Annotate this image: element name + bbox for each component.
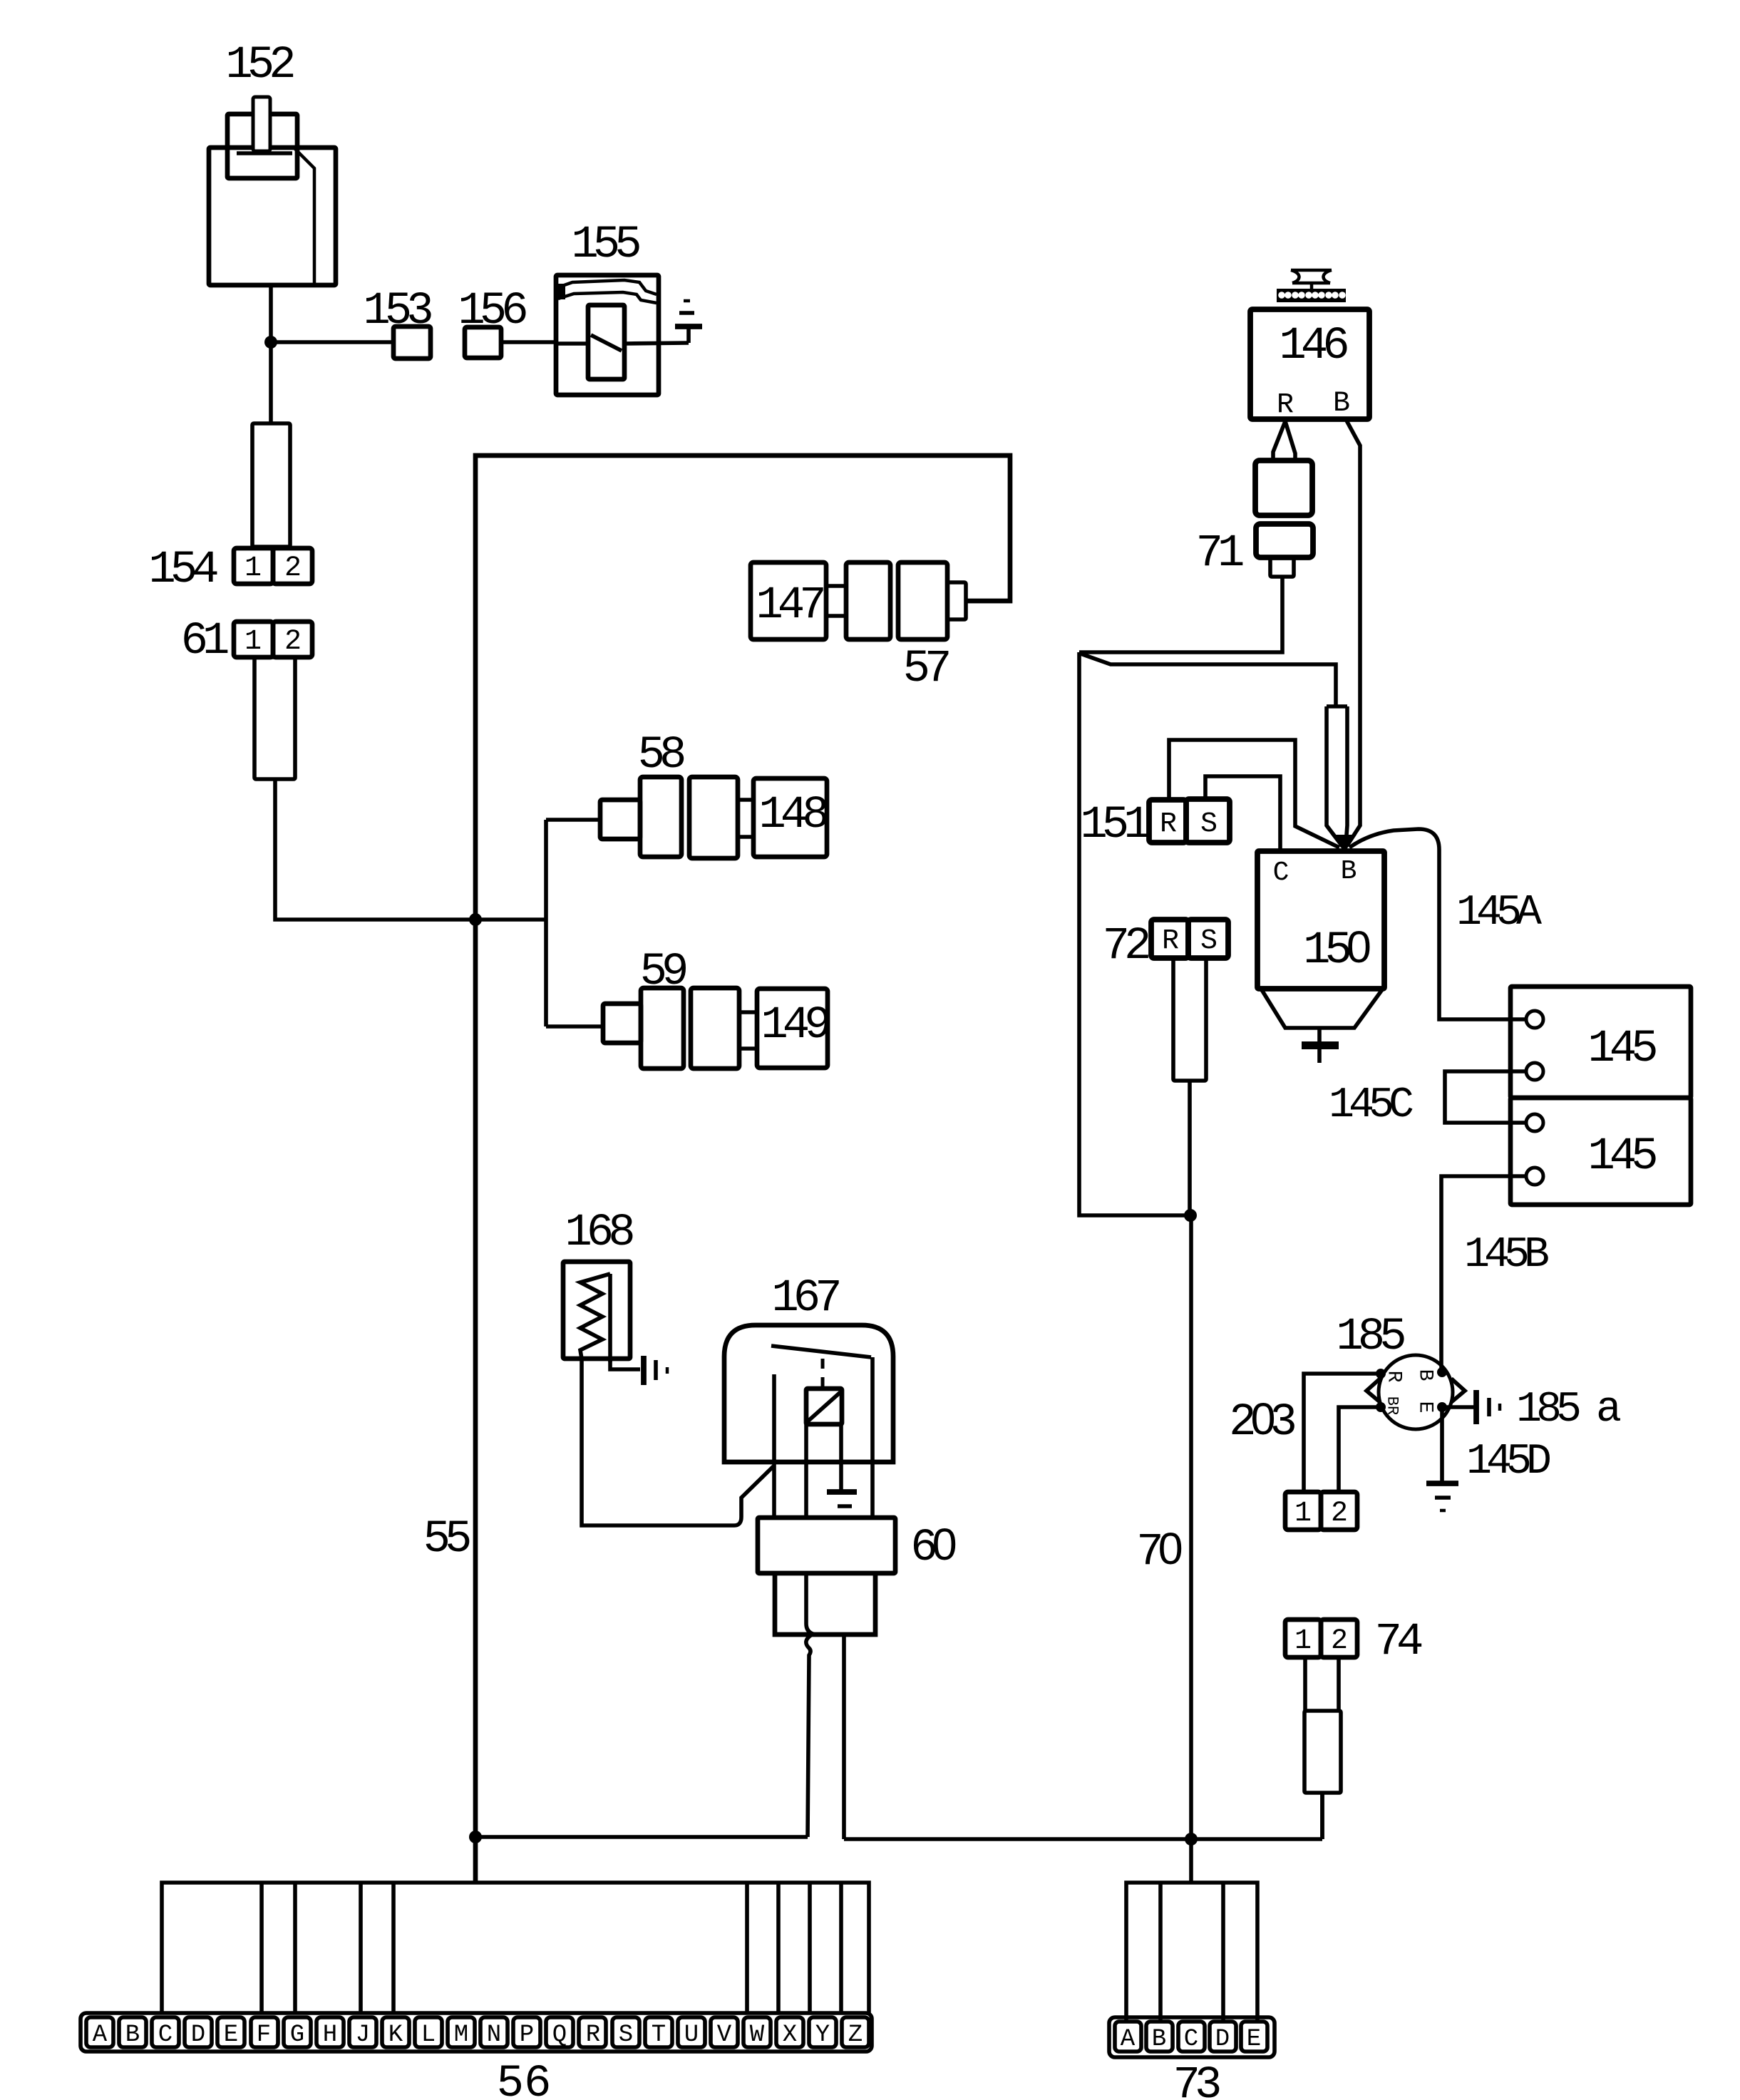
svg-text:150: 150 <box>1303 922 1370 977</box>
connector 56 pin C <box>152 2017 179 2047</box>
wire drop to pin X <box>776 1883 781 2014</box>
connector 56 pin N <box>480 2017 508 2047</box>
svg-text:S: S <box>619 2022 633 2049</box>
connector 57 half A <box>846 562 890 639</box>
connector 74 pin 2 <box>1321 1620 1357 1657</box>
svg-text:Y: Y <box>815 2022 830 2049</box>
wire drop to 73 pin B <box>1158 1883 1163 2020</box>
connector 153 <box>393 326 431 359</box>
resistor 168 heating element <box>580 1274 610 1359</box>
svg-text:57: 57 <box>903 644 949 695</box>
connector 60 body <box>758 1518 895 1573</box>
wire 72 to junction <box>1188 1081 1192 1216</box>
node B arrowhead on 150 <box>1332 835 1357 853</box>
connector 73 pin E <box>1241 2022 1267 2052</box>
wire sleeve below 72 <box>1173 958 1206 1081</box>
switch 167 coil box <box>806 1389 842 1424</box>
wire 151-S to C of 150 <box>1205 776 1280 850</box>
svg-text:149: 149 <box>761 1000 828 1051</box>
svg-text:145: 145 <box>1587 1131 1656 1183</box>
ground 185a sideways <box>1473 1390 1479 1424</box>
connector 58 half B <box>689 777 738 858</box>
connector 56 pin S <box>612 2017 639 2047</box>
terminal circle 3 of 145 <box>1526 1114 1543 1131</box>
relay 155 clip upper line <box>558 280 657 294</box>
unit 150 funnel <box>1261 989 1383 1028</box>
wire B of 146 down <box>1347 421 1360 845</box>
wire 60 right lead <box>842 1635 846 1839</box>
svg-text:145A: 145A <box>1456 889 1542 937</box>
svg-text:145: 145 <box>1587 1024 1656 1075</box>
unit 150 body <box>1257 851 1384 989</box>
svg-text:Q: Q <box>552 2022 567 2049</box>
svg-text:N: N <box>487 2022 501 2049</box>
ground after 155 <box>675 324 702 329</box>
switch 167 coil lead left <box>804 1424 808 1518</box>
svg-text:74: 74 <box>1375 1617 1422 1668</box>
svg-text:P: P <box>520 2022 534 2049</box>
svg-text:167: 167 <box>771 1273 839 1324</box>
svg-text:152: 152 <box>225 40 293 91</box>
connector 59 half A <box>641 988 684 1069</box>
svg-text:72: 72 <box>1103 921 1148 972</box>
wire 185-BR to 203 pin2 <box>1339 1407 1381 1492</box>
connector 59 half B <box>691 988 739 1069</box>
svg-text:58: 58 <box>638 730 684 781</box>
connector 57 stub <box>947 582 966 619</box>
svg-text:B: B <box>1414 1369 1436 1381</box>
wire drop to pin G <box>293 1883 297 2014</box>
svg-text:60: 60 <box>910 1520 955 1574</box>
wire links 147 <box>826 586 846 616</box>
node junction 152/153 <box>264 336 277 349</box>
node junction 70 bottom <box>1185 1833 1198 1846</box>
svg-text:L: L <box>421 2022 436 2049</box>
wire drop to pin J <box>359 1883 363 2014</box>
terminal circle 2 of 145 <box>1526 1063 1543 1080</box>
svg-text:71: 71 <box>1196 528 1243 580</box>
terminal E of 185 <box>1437 1402 1447 1412</box>
svg-text:K: K <box>388 2022 403 2049</box>
wire 155 to ground <box>686 326 691 343</box>
connector 56 pin E <box>217 2017 244 2047</box>
ignition coil 152 folded corner <box>295 149 314 284</box>
svg-text:1: 1 <box>244 626 262 658</box>
relay 155 coil diagonal <box>591 335 622 351</box>
switch 167 right lead <box>870 1357 875 1518</box>
svg-text:A: A <box>93 2022 108 2049</box>
svg-text:BR: BR <box>1384 1396 1401 1415</box>
connector block 56 outline <box>81 2013 872 2052</box>
svg-text:56: 56 <box>497 2059 552 2100</box>
svg-text:1: 1 <box>244 552 262 585</box>
svg-text:73: 73 <box>1173 2060 1220 2100</box>
connector 56 pin B <box>119 2017 146 2047</box>
distributor 146 rotor <box>1291 270 1332 283</box>
connector 72 pin R <box>1151 920 1188 958</box>
wire 71 down and left <box>1079 577 1282 652</box>
svg-text:145C: 145C <box>1329 1081 1413 1130</box>
connector 71 upper <box>1255 460 1312 515</box>
svg-text:C: C <box>158 2022 173 2049</box>
ignition coil 152 body <box>209 148 336 285</box>
connector 56 pin M <box>448 2017 475 2047</box>
device 185 left ear <box>1366 1379 1380 1402</box>
distributor 146 cap bar <box>1277 289 1346 302</box>
wire jog to sleeve feed <box>1081 654 1336 706</box>
connector 71 stub <box>1270 557 1294 577</box>
svg-text:203: 203 <box>1229 1394 1294 1448</box>
switch 167 housing <box>724 1325 893 1462</box>
wire branch vertical 58/59 <box>544 820 548 1026</box>
svg-text:Z: Z <box>848 2022 863 2049</box>
connector 56 pin W <box>743 2017 771 2047</box>
connector 57 half B <box>898 562 947 639</box>
wire 74 pin1 stub <box>1303 1657 1307 1711</box>
ignition coil 152 cap inner line <box>237 151 292 155</box>
relay 155 clip left blob <box>556 284 565 299</box>
svg-text:B: B <box>1341 856 1357 887</box>
svg-text:B: B <box>125 2022 140 2049</box>
node junction 70 top <box>1184 1209 1197 1222</box>
svg-text:155: 155 <box>571 220 639 271</box>
connector block 73 outline <box>1109 2017 1275 2057</box>
unit 150 ground tick <box>1317 1028 1322 1042</box>
wire 145B <box>1441 1176 1526 1372</box>
svg-text:185: 185 <box>1336 1312 1404 1363</box>
connector 56 pin A <box>86 2017 113 2047</box>
wire sleeve above 154 <box>252 423 290 547</box>
connector 147 box <box>751 562 826 639</box>
wire 145A from B node <box>1349 829 1526 1019</box>
device 185 right ear <box>1451 1379 1465 1402</box>
connector 60 lower plug <box>775 1573 875 1635</box>
switch 167 coil diagonal <box>808 1392 840 1421</box>
wire drop to pin K <box>391 1883 396 2014</box>
node junction on 55 line <box>469 913 482 926</box>
connector 151 pin R <box>1149 800 1186 843</box>
switch 167 dashed link <box>821 1359 825 1389</box>
terminal R of 185 <box>1376 1369 1386 1379</box>
connector 203 pin 1 <box>1285 1492 1321 1530</box>
svg-text:1: 1 <box>1294 1498 1312 1530</box>
connector 58 half A <box>640 777 681 857</box>
svg-text:R: R <box>1160 808 1177 840</box>
terminal circle 1 of 145 <box>1526 1011 1543 1028</box>
wire 151-R to B node <box>1169 740 1339 848</box>
connector 56 pin G <box>284 2017 311 2047</box>
svg-text:2: 2 <box>284 552 302 585</box>
connector 58 stub <box>600 800 640 839</box>
sensor 148 box <box>753 778 827 857</box>
spark gap arrow below R <box>1273 421 1295 460</box>
connector 56 pin T <box>645 2017 672 2047</box>
svg-text:145D: 145D <box>1466 1438 1550 1486</box>
svg-text:70: 70 <box>1136 1524 1181 1578</box>
wire fan bus 73 <box>1126 1883 1257 2020</box>
svg-text:E: E <box>1247 2026 1261 2053</box>
relay 155 clip lower line <box>558 292 657 303</box>
svg-text:2: 2 <box>284 626 302 658</box>
svg-text:1: 1 <box>1294 1625 1312 1657</box>
wire drop to pin W <box>745 1883 749 2014</box>
wire drop to pin F <box>259 1883 264 2014</box>
connector 56 pin R <box>579 2017 606 2047</box>
sensor 149 box <box>757 989 828 1068</box>
svg-text:61: 61 <box>181 616 228 667</box>
wire 185-E to ground 185a <box>1442 1405 1475 1409</box>
switch 167 coil lead to ground <box>839 1424 843 1491</box>
connector 71 lower <box>1256 524 1313 557</box>
wire 168 to ground <box>610 1359 640 1369</box>
wire coil to junction <box>269 285 273 342</box>
terminal BR of 185 <box>1376 1402 1386 1412</box>
svg-text:151: 151 <box>1080 800 1149 851</box>
svg-text:X: X <box>783 2022 797 2049</box>
svg-text:D: D <box>1215 2026 1230 2053</box>
svg-text:B: B <box>1152 2026 1166 2053</box>
svg-text:R: R <box>586 2022 600 2049</box>
wire 70 line <box>1189 1215 1193 1883</box>
connector 74 pin 1 <box>1285 1620 1321 1657</box>
wire 185-R to 203 pin1 <box>1304 1374 1381 1492</box>
connector 73 pin B <box>1146 2022 1173 2052</box>
wire 60 left lead <box>806 1635 812 1837</box>
ground inside 60 <box>827 1489 857 1495</box>
connector 61 pin 1 <box>234 622 273 657</box>
wire junction to 153 <box>271 340 393 344</box>
unit 150 ground bar <box>1302 1041 1339 1049</box>
ground 168 sideways <box>641 1356 647 1385</box>
terminal circle 4 of 145 <box>1526 1168 1543 1185</box>
device 185 circle <box>1379 1355 1453 1429</box>
switch 167 blade <box>771 1346 871 1357</box>
wire 168 to 60 <box>582 1359 773 1525</box>
svg-text:A: A <box>1121 2026 1136 2053</box>
connector 72 pin S <box>1188 920 1228 958</box>
connector 59 stub <box>603 1004 641 1043</box>
connector 154 pin 1 <box>234 548 273 584</box>
wire 74 sleeve to bus <box>1320 1793 1324 1839</box>
wire 185-E to chassis ground <box>1440 1407 1444 1482</box>
wire drop to 73 pin D <box>1221 1883 1225 2020</box>
svg-text:147: 147 <box>756 580 823 632</box>
ground 145D chassis <box>1426 1481 1458 1486</box>
svg-text:J: J <box>356 2022 370 2049</box>
connector 73 pin C <box>1178 2022 1205 2052</box>
connector 56 pin V <box>711 2017 738 2047</box>
svg-text:M: M <box>454 2022 468 2049</box>
relay 155 body <box>556 275 659 395</box>
wire sleeve below 74 <box>1304 1711 1341 1793</box>
svg-text:W: W <box>750 2022 765 2049</box>
svg-text:146: 146 <box>1279 321 1347 372</box>
svg-text:T: T <box>652 2022 666 2049</box>
wire main loop 55 / bus to 57 <box>475 455 1010 1883</box>
svg-text:B: B <box>1333 388 1350 420</box>
wire fan bus 56 <box>162 1883 869 2014</box>
connector 151 pin S <box>1186 799 1230 843</box>
svg-text:S: S <box>1200 925 1218 957</box>
connector 56 pin U <box>678 2017 705 2047</box>
connector 56 pin Q <box>546 2017 573 2047</box>
wire links 58-148 <box>738 800 753 837</box>
svg-text:D: D <box>191 2022 205 2049</box>
wire 61 to junction on 55 <box>275 779 546 920</box>
wire branch to 59 <box>546 1024 604 1029</box>
connector 56 pin F <box>251 2017 278 2047</box>
wire long vertical from 71 <box>1079 652 1190 1215</box>
wire bus left <box>475 1835 808 1839</box>
wire sleeve below 61 <box>254 657 295 779</box>
wire branch to 58 <box>546 818 602 822</box>
connector 73 pin D <box>1210 2022 1236 2052</box>
connector 156 <box>465 327 501 358</box>
svg-text:C: C <box>1273 858 1289 888</box>
wire junction down to sleeve <box>269 342 273 423</box>
wire drop to pin Z <box>839 1883 843 2014</box>
connector 73 pin A <box>1115 2022 1141 2052</box>
svg-text:H: H <box>323 2022 337 2049</box>
connector 56 pin Y <box>809 2017 836 2047</box>
relay 155 coil element <box>588 305 624 379</box>
wire drop to pin Y <box>808 1883 812 2014</box>
unit 145 upper box <box>1510 987 1691 1098</box>
connector 154 pin 2 <box>273 548 312 584</box>
unit 145 lower box <box>1510 1098 1691 1205</box>
svg-text:C: C <box>1184 2026 1198 2053</box>
svg-text:F: F <box>257 2022 271 2049</box>
resistor 168 inner lead <box>608 1274 612 1362</box>
svg-text:R: R <box>1383 1371 1405 1383</box>
wire 156 to 155 <box>501 340 557 344</box>
connector 56 pin D <box>185 2017 212 2047</box>
svg-text:R: R <box>1162 925 1179 957</box>
wire riser to 74 sleeve <box>1320 1794 1324 1839</box>
switch 167 left contact lead <box>772 1374 776 1518</box>
svg-text:U: U <box>684 2022 699 2049</box>
svg-text:185 a: 185 a <box>1516 1386 1620 1434</box>
svg-text:E: E <box>1414 1401 1436 1414</box>
svg-text:168: 168 <box>565 1208 633 1259</box>
connector 56 pin K <box>382 2017 409 2047</box>
svg-text:55: 55 <box>423 1514 470 1565</box>
svg-text:145B: 145B <box>1464 1231 1548 1280</box>
terminal B of 185 <box>1437 1367 1447 1377</box>
connector 56 pin P <box>513 2017 540 2047</box>
svg-text:G: G <box>290 2022 304 2049</box>
connector 56 pin J <box>349 2017 376 2047</box>
connector 56 pin H <box>316 2017 344 2047</box>
connector 56 pin X <box>776 2017 803 2047</box>
svg-text:148: 148 <box>758 790 827 841</box>
svg-text:V: V <box>717 2022 732 2049</box>
node junction 55 bottom <box>469 1831 482 1843</box>
connector 203 pin 2 <box>1321 1492 1357 1530</box>
svg-text:154: 154 <box>148 545 217 596</box>
wire through relay 155 <box>557 343 689 344</box>
connector 61 pin 2 <box>273 622 312 657</box>
ignition coil 152 terminal <box>253 97 270 151</box>
connector 56 pin L <box>415 2017 442 2047</box>
ignition coil 152 cap <box>227 114 297 178</box>
connector 60 plug divider <box>806 1573 815 1635</box>
svg-text:2: 2 <box>1331 1625 1348 1657</box>
wire bus right <box>844 1837 1322 1841</box>
svg-text:153: 153 <box>363 286 431 337</box>
connector 56 pin Z <box>842 2017 869 2047</box>
wire 74 pin2 stub <box>1337 1657 1341 1711</box>
wire 145C jumper <box>1445 1071 1526 1123</box>
svg-text:S: S <box>1200 808 1218 840</box>
wire links 59-149 <box>739 1012 757 1049</box>
svg-text:E: E <box>224 2022 238 2049</box>
resistor 168 box <box>563 1262 630 1359</box>
svg-text:R: R <box>1277 389 1294 421</box>
distributor 146 body <box>1250 309 1369 419</box>
svg-text:2: 2 <box>1331 1498 1348 1530</box>
wire sleeve above B of 150 <box>1327 706 1347 846</box>
